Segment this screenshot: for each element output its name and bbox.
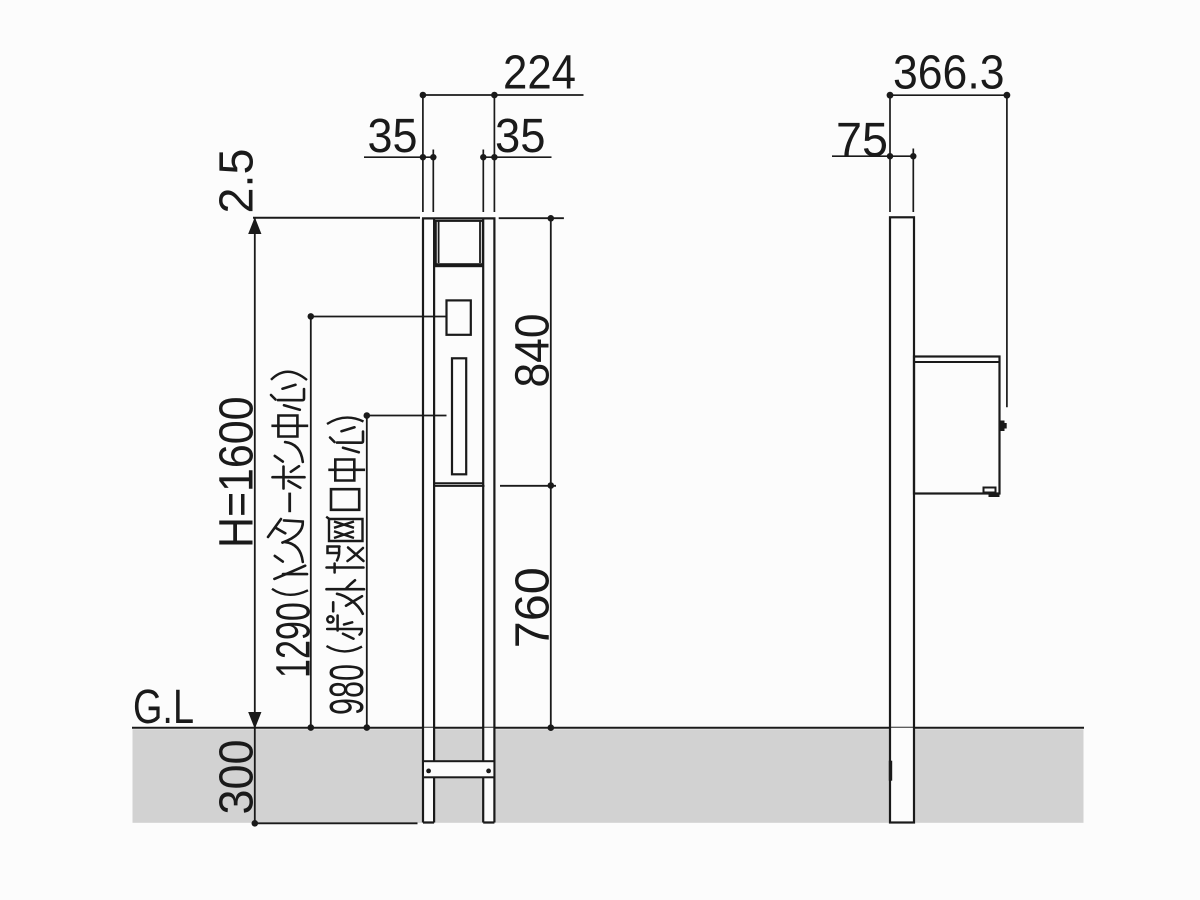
- dim 980: leader to slot: [367, 415, 447, 417]
- side view: mailbox lid inner line: [914, 361, 1000, 363]
- svg-text:1290: 1290: [267, 602, 321, 678]
- kana n: [275, 442, 303, 462]
- dim 760: vertical line: [550, 486, 552, 728]
- dim 300: vertical line below GL: [254, 728, 256, 824]
- kanji naka: [271, 416, 308, 437]
- crossbar bolt left: [426, 769, 431, 774]
- svg-text:75: 75: [836, 113, 888, 167]
- ground hatch band: [133, 729, 1084, 823]
- kanji tou (throw): [327, 547, 364, 573]
- dim 840: extension lines: [499, 217, 564, 219]
- dim 1290 label: closing paren: [271, 372, 307, 380]
- dim 300: horizontal line: [255, 822, 418, 824]
- svg-text:35: 35: [368, 109, 418, 163]
- kana chouon bar: [289, 493, 291, 513]
- front view: panel bottom edge lines: [434, 482, 483, 484]
- dim 980 label: closing paren: [327, 418, 364, 424]
- kana su: [333, 594, 363, 614]
- front view: right post below ground: [483, 728, 494, 823]
- kanji hako (box): [326, 517, 362, 541]
- dim 840: vertical line: [550, 218, 552, 485]
- front view: cap box inner walls: [439, 221, 480, 263]
- dim 35 left: line: [364, 156, 437, 158]
- svg-text:980: 980: [320, 664, 374, 715]
- front view: pillar top edge: [422, 217, 496, 219]
- front view: post slot opening: [452, 358, 466, 474]
- G.L ground line: [132, 727, 1084, 729]
- kana to: [327, 580, 365, 589]
- dim 1290: vertical line: [310, 316, 312, 727]
- kana po: [327, 616, 362, 639]
- svg-text:366.3: 366.3: [893, 45, 1005, 99]
- svg-text:224: 224: [503, 46, 576, 100]
- svg-text:300: 300: [210, 740, 264, 815]
- dim H=1600: vertical line with arrows: [254, 219, 256, 728]
- dim 1290 label: open paren: [272, 589, 308, 595]
- svg-text:760: 760: [506, 567, 560, 648]
- front view: cap box bottom band: [436, 263, 483, 266]
- side view: mailbox knob: [1000, 421, 1005, 432]
- kana i: [274, 566, 307, 579]
- front view: intercom opening: [447, 300, 471, 334]
- side view: post outline: [890, 217, 914, 822]
- side view: mailbox handle: [984, 488, 996, 493]
- kanji kuchi (mouth): [331, 489, 359, 510]
- kanji naka: [328, 460, 365, 481]
- front view: post bottoms: [423, 821, 494, 823]
- kanji kokoro: [330, 427, 363, 452]
- svg-text:H=1600: H=1600: [210, 397, 264, 549]
- kana n: [275, 542, 303, 562]
- crossbar bolt right: [486, 769, 491, 774]
- dim H=1600: top horizontal line: [253, 217, 420, 219]
- front view: crossbar below ground: [423, 761, 494, 777]
- dim 366.3: line: [890, 94, 1007, 96]
- side view: post below ground: [890, 728, 914, 823]
- side view: mailbox body: [914, 357, 1000, 494]
- dim 980 label: open paren: [327, 646, 363, 651]
- svg-text:2.5: 2.5: [210, 149, 264, 214]
- kana ta: [268, 519, 303, 543]
- side view: crossbar edge tick: [889, 761, 892, 781]
- dim 224: line: [423, 94, 584, 96]
- svg-text:35: 35: [495, 109, 546, 163]
- svg-text:G.L: G.L: [133, 680, 194, 734]
- kana ho: [273, 466, 305, 488]
- front view: post vertical lines: [423, 219, 494, 823]
- front view: left post below ground (white fill): [423, 728, 434, 823]
- kanji kokoro: [271, 385, 304, 410]
- dim 35 right: line: [481, 156, 552, 158]
- dim 1290: leader to intercom: [311, 316, 447, 318]
- dim 75: line: [832, 155, 915, 157]
- dim 980: vertical line: [366, 416, 368, 728]
- dim 224: extension lines: [423, 95, 495, 212]
- front view: cap box outer: [436, 221, 483, 266]
- dim 366.3: extension lines: [890, 95, 1007, 407]
- svg-text:840: 840: [506, 314, 560, 388]
